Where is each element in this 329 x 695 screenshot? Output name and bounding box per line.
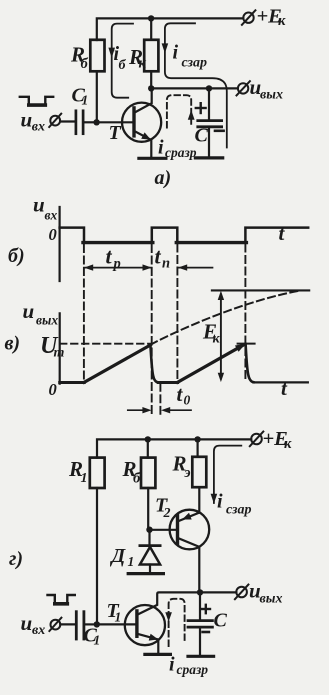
wire capacitor C top (circuit g) — [199, 592, 201, 619]
svg-text:б: б — [133, 471, 141, 487]
label u_vx (circuit a) — [21, 107, 46, 134]
current arrow i_c_zar (circuit a) — [162, 23, 227, 147]
label t0 (plot v) — [177, 382, 191, 408]
label i_c_zar (circuit g) — [217, 490, 252, 517]
label a) — [155, 167, 172, 189]
wire Д1 bottom lead (circuit g) — [149, 565, 151, 574]
svg-text:э: э — [184, 465, 191, 481]
svg-text:и: и — [23, 299, 35, 323]
dashed exponential to Ek (plot v) — [151, 291, 300, 345]
svg-text:к: к — [278, 13, 286, 29]
junction collector node (circuit a) — [148, 85, 154, 91]
svg-text:1: 1 — [94, 633, 101, 648]
resistor Rб (circuit a) — [90, 40, 104, 72]
dashed level Um (plot v) — [60, 343, 150, 345]
svg-text:1: 1 — [81, 471, 88, 486]
label t (plot v) — [281, 376, 288, 400]
svg-text:0: 0 — [184, 393, 191, 408]
waveform u_vx (plot b) — [60, 228, 309, 243]
label C (circuit a) — [195, 125, 209, 147]
label T (circuit a) — [109, 122, 122, 144]
label C1 (circuit a) — [72, 84, 89, 107]
label Rk (circuit a) — [128, 45, 147, 72]
svg-text:б: б — [81, 56, 89, 72]
svg-text:в): в) — [5, 333, 21, 355]
svg-text:1: 1 — [115, 610, 122, 625]
svg-text:и: и — [21, 107, 33, 131]
dashed discharge loop i_c_razr (circuit g) — [165, 599, 184, 646]
label C1 (circuit g) — [84, 624, 101, 647]
wire Rk top lead (circuit a) — [150, 18, 152, 39]
capacitor C1 (circuit a) — [76, 111, 83, 134]
svg-text:сразр: сразр — [177, 662, 209, 677]
level line Ek (plot v) — [212, 289, 309, 291]
svg-text:сзар: сзар — [182, 56, 208, 71]
wire Rб to T2 base (circuit g) — [147, 488, 149, 530]
terminal u_vx (circuit a) — [49, 114, 61, 127]
wire capacitor C bottom (circuit g) — [199, 627, 201, 656]
svg-text:0: 0 — [49, 380, 57, 399]
svg-text:i: i — [217, 490, 223, 512]
junction T2 base node (circuit g) — [146, 527, 152, 533]
svg-text:б): б) — [8, 245, 25, 267]
label Ek (plot v) — [202, 320, 221, 347]
label g) — [9, 548, 23, 570]
svg-text:t: t — [177, 382, 184, 406]
transistor T1 (circuit g) — [97, 592, 237, 654]
svg-text:t: t — [155, 244, 162, 269]
wire capacitor top (circuit a) — [208, 88, 210, 119]
svg-text:С: С — [214, 609, 228, 631]
junction rail/Rk (circuit a) — [148, 15, 154, 21]
svg-text:г): г) — [9, 548, 23, 570]
svg-text:к: к — [139, 56, 147, 72]
wire output (circuit a) — [151, 87, 238, 89]
transistor T (circuit a) — [97, 88, 162, 158]
terminal u_vyx (circuit g) — [235, 585, 249, 600]
terminal u_vyx (circuit a) — [237, 81, 250, 95]
svg-text:1: 1 — [82, 92, 89, 107]
svg-text:вх: вх — [32, 623, 45, 638]
junction base node (circuit a) — [93, 119, 99, 125]
ground under capacitor C (circuit g) — [188, 655, 214, 658]
label i_б (circuit a) — [114, 43, 127, 73]
dimension arrow tп (plot b) — [178, 264, 213, 270]
wire R1 to base node (circuit g) — [96, 488, 98, 624]
axis u_vx (plot b) — [58, 207, 60, 281]
wire +Ek supply rail (circuit g) — [97, 439, 251, 457]
terminal +Ek (circuit a) — [242, 10, 256, 24]
ground under capacitor (circuit a) — [195, 156, 222, 159]
svg-text:2: 2 — [163, 506, 171, 521]
svg-text:сзар: сзар — [226, 502, 252, 517]
dashed guide x=245.4 — [244, 245, 246, 383]
label plus (circuit a) — [196, 103, 206, 113]
current arrow i_б (circuit a) — [108, 24, 133, 98]
waveform sawtooth (plot v) — [60, 344, 308, 383]
wire Rэ top lead (circuit g) — [197, 439, 199, 456]
label u_vyx (circuit a) — [250, 75, 283, 103]
wire input to C1 (circuit a) — [60, 120, 74, 122]
wire Rб to base node (circuit a) — [96, 71, 98, 122]
wire Rk bottom lead (circuit a) — [150, 71, 152, 88]
junction output node (circuit g) — [197, 589, 203, 595]
label C (circuit g) — [214, 609, 228, 631]
svg-text:п: п — [162, 256, 170, 272]
svg-text:и: и — [33, 192, 45, 216]
label i_c_razr (circuit g) — [169, 653, 208, 677]
label u_vx (circuit g) — [21, 611, 46, 638]
svg-text:t: t — [281, 376, 288, 400]
junction capacitor node (circuit a) — [206, 85, 212, 91]
wire capacitor bottom (circuit a) — [208, 127, 210, 158]
label R1 (circuit g) — [68, 457, 88, 486]
wire Rэ to T2 emitter (circuit g) — [198, 487, 200, 512]
double arrow Ek (plot v) — [218, 291, 224, 382]
dimension t0 (plot v) — [128, 407, 191, 413]
svg-text:Т: Т — [109, 122, 122, 144]
capacitor C1 (circuit g) — [76, 612, 84, 639]
label T2 (circuit g) — [155, 494, 171, 521]
capacitor C (circuit a) — [198, 121, 222, 127]
label i_c_zar (circuit a) — [173, 42, 208, 71]
input pulse icon (circuit a) — [20, 97, 53, 105]
wire +Ek supply rail (circuit a) — [97, 18, 244, 40]
ground under emitter (circuit a) — [139, 157, 166, 160]
svg-text:t: t — [279, 221, 286, 245]
wire Д1 top lead (circuit g) — [148, 530, 150, 545]
label +Ek (circuit a) — [257, 6, 287, 30]
dashed discharge loop i_c_razr (circuit a) — [167, 95, 195, 127]
svg-text:m: m — [54, 346, 65, 361]
svg-text:б: б — [119, 58, 127, 73]
dashed guide x=160.4 (plot v) — [159, 384, 161, 415]
label i_c_razr (circuit a) — [158, 137, 197, 161]
junction T1 base node (circuit g) — [94, 621, 100, 627]
svg-text:вых: вых — [260, 88, 283, 103]
label b) — [8, 245, 25, 267]
terminal +Ek (circuit g) — [250, 432, 263, 447]
dimension arrow tp (plot b) — [84, 264, 152, 270]
label tп (plot b) — [155, 244, 171, 272]
label T1 (circuit g) — [107, 600, 122, 625]
label plus (circuit g) — [202, 605, 210, 613]
label Rб (circuit g) — [122, 457, 142, 487]
svg-text:к: к — [213, 331, 221, 346]
svg-text:сразр: сразр — [165, 145, 197, 160]
svg-text:i: i — [158, 137, 164, 159]
label minus (circuit a) — [215, 130, 224, 133]
junction rail/Rб (circuit g) — [145, 436, 151, 442]
dashed guide x=177.4 — [176, 245, 178, 383]
resistor Rk (circuit a) — [144, 40, 158, 72]
label Д1 (circuit g) — [110, 545, 135, 569]
svg-text:к: к — [284, 436, 292, 452]
wire C1 to T1 base (circuit g) — [85, 623, 97, 625]
dashed guide x=151.7 — [151, 245, 153, 415]
label v) — [5, 333, 21, 355]
ground under T1 (circuit g) — [145, 653, 171, 656]
svg-text:t: t — [106, 244, 113, 269]
svg-text:вх: вх — [32, 119, 45, 134]
dashed guide x=84 — [83, 245, 85, 382]
label 0 (plot v) — [49, 380, 57, 399]
label t (plot b) — [279, 221, 286, 245]
wire input to C1 (circuit g) — [60, 623, 75, 625]
svg-text:р: р — [112, 256, 121, 272]
axis u_vyx (plot v) — [59, 313, 61, 383]
svg-text:С: С — [195, 125, 209, 147]
ground under Д1 (circuit g) — [128, 572, 163, 575]
label Um (plot v) — [40, 333, 65, 361]
label tp (plot b) — [106, 244, 121, 273]
label Rб (circuit a) — [70, 43, 89, 73]
wire C1 to base (circuit a) — [85, 121, 97, 123]
peak level tick (plot v) — [238, 343, 255, 345]
diode Д1 (circuit g) — [140, 546, 160, 565]
svg-text:вх: вх — [45, 208, 58, 223]
label Rэ (circuit g) — [172, 452, 191, 481]
svg-text:0: 0 — [49, 225, 57, 244]
svg-text:и: и — [21, 611, 33, 635]
resistor Rэ (circuit g) — [192, 457, 206, 487]
capacitor C (circuit g) — [188, 621, 212, 628]
resistor R1 (circuit g) — [90, 458, 105, 488]
label 0 (plot b) — [49, 225, 57, 244]
current arrow i_c_zar (circuit g) — [211, 446, 242, 504]
junction rail/Rэ (circuit g) — [194, 436, 200, 442]
transistor T2 (circuit g) — [150, 510, 210, 593]
svg-text:вых: вых — [260, 592, 283, 607]
svg-text:1: 1 — [128, 554, 135, 569]
label minus (circuit g) — [203, 631, 209, 634]
svg-text:вых: вых — [36, 312, 58, 327]
label u_vx axis (plot b) — [33, 192, 58, 222]
resistor Rб (circuit g) — [141, 458, 155, 488]
label +Ek (circuit g) — [263, 428, 293, 452]
svg-text:i: i — [173, 42, 179, 64]
svg-text:Д: Д — [110, 545, 127, 567]
svg-text:а): а) — [155, 167, 172, 189]
label u_vyx (circuit g) — [249, 578, 282, 606]
terminal u_vx (circuit g) — [49, 618, 61, 631]
wire Rб top lead (circuit g) — [147, 439, 149, 457]
label u_vyx axis (plot v) — [23, 299, 59, 327]
input pulse icon (circuit g) — [48, 595, 75, 604]
svg-text:i: i — [169, 653, 175, 675]
